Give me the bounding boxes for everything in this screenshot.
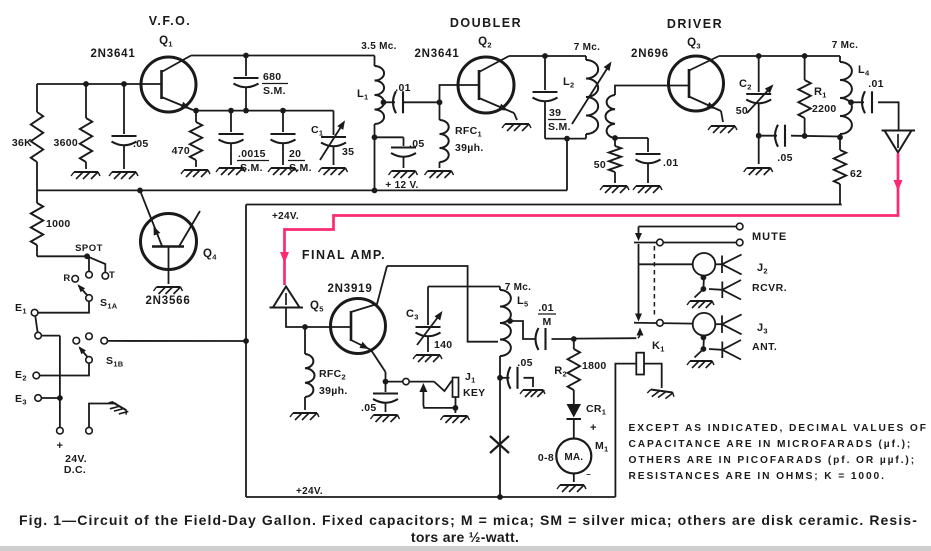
Q5 emitter lead with arrow — [351, 340, 386, 372]
node C2 bottom — [756, 133, 762, 139]
Q2 emitter to ground — [514, 113, 517, 120]
wire 3600 top lead — [85, 84, 87, 118]
svg-text:+24V.: +24V. — [272, 211, 299, 222]
svg-text:RCVR.: RCVR. — [752, 282, 787, 294]
capacitor .05 (VFO base bypass) — [112, 135, 137, 137]
capacitor .05 (driver) — [775, 125, 778, 147]
Q4 collector lead — [179, 211, 200, 247]
svg-text:2N3566: 2N3566 — [145, 295, 190, 307]
terminal E3 — [35, 395, 42, 402]
svg-text:D.C.: D.C. — [64, 464, 86, 476]
svg-text:680: 680 — [263, 71, 281, 83]
node L4 tap — [848, 99, 854, 105]
wire L4 tap to .01 output cap — [851, 101, 864, 103]
svg-text:35: 35 — [342, 146, 354, 158]
inductor RFC1 — [439, 102, 441, 120]
antenna line X marker — [490, 436, 509, 453]
wire .05 bottom lead — [123, 146, 125, 169]
capacitor .01 (output coupling) — [862, 91, 865, 113]
svg-text:+ 12 V.: + 12 V. — [385, 180, 418, 191]
wire driver collector rail — [719, 55, 840, 57]
capacitor .05 (emitter bypass) — [385, 382, 387, 392]
wire S1B to +24V line — [108, 340, 247, 342]
svg-text:FINAL AMP.: FINAL AMP. — [302, 248, 386, 262]
resistor 50 (driver base) — [614, 138, 616, 146]
wire L3 bottom branch — [615, 137, 648, 139]
svg-text:470: 470 — [172, 145, 190, 157]
transistor Q1 2N3641 — [141, 57, 196, 112]
capacitor .01/M (output) — [536, 328, 539, 350]
ground under .05 — [112, 171, 136, 173]
node R1 bottom — [802, 133, 808, 139]
wire doubler collector rail — [509, 55, 586, 57]
svg-text:.01: .01 — [538, 302, 554, 314]
svg-text:.05: .05 — [409, 138, 425, 150]
node L3 bottom — [612, 135, 618, 141]
svg-text:V.F.O.: V.F.O. — [149, 14, 192, 28]
Q5 collector lead — [351, 266, 387, 312]
svg-text:50: 50 — [736, 105, 748, 117]
Q1 emitter lead with arrow — [162, 97, 194, 110]
node .05 output tap — [497, 375, 503, 381]
J2 plug prong upper — [715, 263, 722, 265]
node key ground junction — [453, 405, 459, 411]
svg-text:39: 39 — [549, 107, 561, 119]
svg-text:3600: 3600 — [53, 137, 78, 149]
terminal + battery — [57, 427, 64, 434]
node 680 bottom — [243, 108, 249, 114]
wire to Q2 base — [440, 85, 459, 102]
wire armature to J2 feed — [638, 244, 640, 264]
Q4 base lead down — [168, 247, 170, 285]
svg-text:−: − — [586, 470, 591, 479]
transistor Q3 2N696 — [669, 56, 724, 111]
J3 plug prong upper — [715, 323, 722, 325]
wire .0015 top lead — [230, 111, 232, 132]
wire +24V box bottom edge — [246, 496, 615, 498]
resistor 36K — [31, 112, 43, 162]
node 20 top — [280, 108, 286, 114]
svg-text:.01: .01 — [663, 157, 679, 169]
svg-text:CAPACITANCE ARE IN MICROFARADS: CAPACITANCE ARE IN MICROFARADS (µf.); — [629, 439, 913, 450]
svg-text:7 Mc.: 7 Mc. — [832, 40, 859, 51]
resistor 62 — [839, 138, 841, 151]
wire Q1 base rail — [37, 83, 142, 85]
ground under C3 — [416, 354, 440, 356]
node rail/L1 — [372, 188, 378, 194]
MUTE contact arrow — [638, 227, 640, 234]
wire L1 tap to .01 — [384, 101, 396, 103]
transistor Q5 2N3919 — [331, 299, 386, 354]
J3 plug prong lower — [709, 348, 722, 351]
svg-text:7 Mc.: 7 Mc. — [505, 282, 532, 293]
jack J3 tip circle — [693, 313, 716, 336]
highlighted signal path (pink) — [285, 153, 899, 285]
wire to relay arm — [574, 337, 637, 339]
J3 contacts below — [702, 336, 705, 350]
wire VFO top rail — [191, 55, 375, 57]
wire 20 top lead — [282, 111, 284, 132]
resistor R 3600 — [80, 118, 92, 162]
svg-text:39µh.: 39µh. — [319, 385, 348, 397]
output connector triangle (down) — [882, 130, 916, 132]
ground under emitter .05 — [374, 414, 398, 416]
ground under .0015 — [219, 167, 243, 169]
node SPOT — [84, 253, 90, 259]
resistor 470 — [190, 122, 202, 160]
Q2 emitter lead with arrow — [479, 98, 514, 113]
node base/3600 junction — [83, 81, 89, 87]
Q3 collector lead — [689, 56, 719, 71]
wire S1B pole to E2 — [40, 363, 89, 375]
svg-text:DOUBLER: DOUBLER — [450, 16, 522, 30]
transistor Q4 2N3566 — [141, 214, 197, 270]
wire 1000 to spot switch — [37, 255, 87, 257]
wire .05 to R1 bottom — [791, 135, 840, 138]
wire .01 to output triangle — [878, 102, 899, 130]
wire L5 bottom down — [499, 356, 501, 497]
wire +12V bottom rail — [37, 189, 567, 191]
wire Q1 emitter to emitter rail — [193, 109, 196, 112]
ground under 3600 — [74, 171, 98, 173]
svg-text:1800: 1800 — [582, 360, 607, 372]
svg-text:50: 50 — [594, 159, 606, 171]
wire left rail upper — [36, 84, 38, 112]
svg-text:0-8: 0-8 — [538, 452, 554, 464]
wire Q5 collector top run — [387, 266, 498, 342]
terminal E2 — [33, 372, 40, 379]
svg-text:tors are ½-watt.: tors are ½-watt. — [411, 529, 519, 545]
wire 3600 bottom lead — [85, 162, 87, 169]
tilted ground near battery — [106, 400, 129, 417]
Q1 collector lead — [162, 56, 192, 73]
svg-text:SPOT: SPOT — [75, 243, 103, 254]
wire E3 to bus — [42, 397, 60, 399]
svg-text:.05: .05 — [517, 357, 533, 369]
wire K1 left lead — [615, 364, 636, 497]
ground under K1 — [647, 389, 675, 400]
svg-text:DRIVER: DRIVER — [667, 17, 723, 31]
resistor 1000 — [36, 190, 38, 203]
svg-text:OTHERS ARE IN PICOFARADS (pf.: OTHERS ARE IN PICOFARADS (pf. OR µµf.); — [629, 455, 917, 466]
inductor RFC2 — [304, 327, 306, 354]
ground under RFC1 — [428, 170, 452, 172]
Q5 emitter junction — [385, 372, 387, 382]
svg-text:M: M — [542, 316, 551, 328]
spot contact stubs — [88, 256, 90, 271]
terminal below E1 — [35, 332, 42, 339]
ground under Q4 — [157, 286, 181, 288]
wire meter to ground — [573, 474, 575, 483]
wire left rail lower — [36, 162, 38, 190]
svg-text:2N696: 2N696 — [631, 48, 669, 60]
ground under key jack — [443, 415, 467, 417]
wire 470 bottom lead — [195, 160, 197, 167]
capacitor 20 S.M. — [271, 133, 296, 135]
ground under J3 — [690, 360, 712, 362]
node Q1 emitter — [193, 108, 199, 114]
svg-text:R: R — [63, 273, 70, 284]
relay linkage dashed — [653, 246, 655, 318]
svg-text:1000: 1000 — [46, 218, 71, 230]
wire .05 top lead — [123, 84, 125, 134]
node C2 top — [756, 53, 762, 59]
jack J2 tip circle — [693, 253, 716, 276]
svg-text:.05: .05 — [777, 152, 793, 164]
variable capacitor C2 50 — [758, 56, 760, 92]
node .0015 top — [228, 108, 234, 114]
TX line up arrow — [637, 328, 644, 336]
wire .05 branch — [375, 136, 404, 138]
node L1 bottom / .05 tap — [372, 134, 378, 140]
wire E1 terminal to battery bus — [42, 335, 60, 337]
svg-text:MA.: MA. — [564, 452, 583, 463]
svg-text:39µh.: 39µh. — [455, 142, 484, 154]
svg-text:.01: .01 — [868, 78, 884, 90]
scanner gray strip bottom — [0, 546, 931, 551]
node L5 tap — [507, 318, 513, 324]
svg-text:T: T — [109, 270, 115, 281]
node S1B feed on box edge — [243, 338, 249, 344]
Q4 emitter lead with arrow — [140, 190, 162, 246]
node 680 top — [243, 53, 249, 59]
J3 armature line — [634, 322, 693, 325]
resistor R1 2200 — [804, 56, 806, 80]
capacitor .0015 S.M. — [219, 133, 244, 135]
svg-text:36K: 36K — [12, 137, 32, 149]
inductor L3 — [606, 95, 615, 138]
switch S1A pole and arm — [72, 276, 79, 283]
diode CR1 — [573, 390, 575, 404]
ground under 470 — [184, 169, 208, 171]
key contact spring — [434, 381, 452, 392]
wire J2 feed to J3 arrow — [638, 264, 640, 313]
capacitor .01 (VFO-doubler coupling) — [393, 91, 396, 113]
svg-text:2N3641: 2N3641 — [90, 48, 135, 60]
node L5 line to +24V bottom — [497, 494, 503, 500]
node rail/Q4 — [137, 188, 143, 194]
key jack frame — [453, 378, 459, 398]
input connector triangle (up) — [273, 287, 300, 308]
svg-text:2N3919: 2N3919 — [327, 283, 372, 295]
wire - terminal to ground — [89, 404, 116, 428]
inductor L4 — [839, 56, 841, 62]
ground under C1 — [322, 167, 346, 169]
MUTE armature line — [634, 242, 736, 244]
ground under .01 driver — [636, 185, 660, 187]
variable capacitor C1 35 — [321, 136, 346, 138]
svg-text:62: 62 — [850, 168, 862, 180]
wire +24V box left edge — [245, 205, 247, 498]
switch S1B pole and arm — [86, 357, 93, 364]
svg-text:7 Mc.: 7 Mc. — [574, 42, 601, 53]
node base/.05 junction — [121, 81, 127, 87]
wire C1 top lead — [333, 111, 335, 135]
terminal - battery — [86, 427, 93, 434]
node doubler input — [437, 99, 443, 105]
wire C3 to L5 top — [428, 286, 500, 288]
capacitor .01 (driver base) — [647, 138, 649, 152]
wire .01/M to R2 node — [552, 338, 574, 340]
MUTE fixed contact line — [639, 226, 737, 228]
ground under .05 rail bypass — [392, 170, 416, 172]
svg-text:.0015: .0015 — [238, 148, 266, 160]
svg-text:EXCEPT AS INDICATED, DECIMAL V: EXCEPT AS INDICATED, DECIMAL VALUES OF — [629, 423, 928, 434]
ground under C2 — [747, 167, 771, 169]
inductor L5 — [499, 287, 501, 291]
wire .01 to doubler junction — [403, 101, 440, 103]
svg-text:.05: .05 — [361, 402, 377, 414]
wire J2 feed — [639, 263, 693, 265]
J2 plug prong lower — [709, 288, 722, 291]
inductor L1 — [374, 56, 376, 67]
ground under J2 — [690, 300, 712, 302]
capacitor 680 S.M. — [234, 77, 259, 79]
svg-text:2200: 2200 — [812, 103, 837, 115]
ground under meter — [560, 484, 584, 486]
wire S1A pole to E1 — [38, 301, 89, 312]
key plug arrow — [419, 383, 427, 392]
wire L5 tap to .01/M — [510, 321, 535, 339]
wire C2 to .05 — [759, 135, 777, 137]
resistor R2 1800 — [573, 339, 575, 349]
ground under final .05 — [523, 389, 543, 391]
meter M1 0-8 MA — [573, 419, 575, 439]
svg-text:KEY: KEY — [463, 387, 486, 399]
transistor Q2 2N3641 — [458, 57, 514, 113]
capacitor 680 S.M. leads — [245, 56, 247, 77]
svg-text:.01: .01 — [395, 82, 411, 94]
node 39SM top — [542, 53, 548, 59]
wire doubler tank bottom — [545, 138, 586, 140]
capacitor .05 (+12V bypass) — [391, 146, 416, 148]
wire VFO emitter rail — [196, 110, 334, 112]
ground under 50 — [603, 185, 627, 187]
svg-text:3.5 Mc.: 3.5 Mc. — [361, 41, 396, 52]
key jack J1 circuit — [386, 381, 403, 383]
svg-text:RESISTANCES ARE IN OHMS; K = 1: RESISTANCES ARE IN OHMS; K = 1000. — [629, 471, 886, 482]
capacitor .05 (final) — [500, 377, 510, 379]
ground under 20 — [271, 167, 295, 169]
svg-text:MUTE: MUTE — [752, 231, 787, 243]
switch S1B contacts — [73, 337, 80, 344]
ground under RFC2 — [293, 412, 317, 414]
J2 contacts below — [702, 276, 705, 289]
svg-text:+: + — [590, 422, 597, 434]
svg-text:.05: .05 — [133, 138, 149, 150]
svg-text:+24V.: +24V. — [296, 486, 323, 497]
wire +24V box top edge — [246, 204, 842, 206]
variable capacitor C3 140 — [427, 287, 429, 326]
svg-text:Fig. 1—Circuit of the Field-Da: Fig. 1—Circuit of the Field-Day Gallon. … — [19, 512, 918, 528]
wire K1 right lead to ground — [644, 364, 662, 388]
svg-text:2N3641: 2N3641 — [414, 48, 459, 60]
svg-text:S.M.: S.M. — [263, 85, 286, 97]
inductor L2 variable — [585, 56, 587, 60]
wire 470 top lead — [195, 111, 197, 122]
node R1 top — [802, 53, 808, 59]
wire tank to +12V rail — [566, 139, 568, 191]
node L1 tap — [381, 99, 387, 105]
svg-text:S.M.: S.M. — [548, 121, 571, 133]
node L4 bottom — [837, 134, 843, 140]
svg-text:+: + — [57, 440, 64, 452]
node R2 top — [571, 336, 577, 342]
svg-text:ANT.: ANT. — [752, 341, 777, 353]
terminal E1 — [31, 309, 38, 316]
wire triangle to base junction — [286, 308, 330, 328]
Q3 emitter to ground — [721, 111, 723, 122]
node tank bottom — [564, 136, 570, 142]
svg-text:20: 20 — [289, 148, 301, 160]
svg-text:140: 140 — [434, 339, 452, 351]
capacitor 39 S.M. — [544, 56, 546, 90]
node RFC2 tap — [302, 324, 308, 330]
Q3 emitter lead with arrow — [689, 97, 721, 112]
node E3 bus — [57, 395, 63, 401]
Q2 collector lead — [479, 56, 509, 72]
